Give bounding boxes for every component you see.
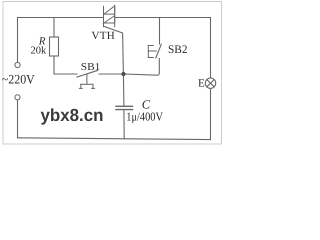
triac VTH triangle lower (pointing left) (104, 16, 115, 23)
svg-text:SB1: SB1 (81, 62, 101, 73)
switch SB1 blade (77, 71, 98, 78)
capacitor C plates (116, 106, 133, 109)
wire node corner up to SB2 (124, 59, 160, 76)
terminal upper (15, 62, 20, 67)
wire left rail lower (17, 100, 19, 138)
border frame (3, 2, 222, 145)
wire resistor top lead (53, 18, 55, 38)
terminal lower (15, 95, 20, 100)
wire SB1 to node (99, 73, 124, 75)
wire SB2 top lead (159, 18, 161, 45)
capacitor C bottom lead (123, 110, 125, 139)
svg-text:20k: 20k (31, 46, 48, 57)
triac VTH left bar (103, 6, 105, 27)
svg-text:SB2: SB2 (168, 44, 188, 56)
svg-text:ybx8.cn: ybx8.cn (41, 105, 104, 125)
lamp E symbol (205, 78, 215, 88)
capacitor C top lead (122, 74, 125, 106)
wire triac gate (104, 26, 124, 74)
svg-text:VTH: VTH (92, 30, 116, 42)
wire right rail lower (210, 88, 212, 139)
wire bottom rail (18, 138, 211, 140)
switch SB1 button cap (79, 74, 94, 88)
svg-text:E: E (198, 78, 205, 90)
wire resistor bottom lead to SB1 (54, 56, 77, 74)
wire top rail (18, 17, 211, 19)
svg-text:1μ/400V: 1μ/400V (126, 110, 163, 124)
node junction dot (121, 72, 125, 76)
triac VTH triangle upper (pointing left) (104, 6, 115, 14)
switch SB2 blade (156, 44, 162, 58)
wire right rail upper (210, 18, 212, 79)
resistor R body (50, 37, 59, 56)
switch SB2 button cap (148, 46, 156, 58)
wire left rail upper (17, 18, 19, 63)
triac VTH right bar (114, 5, 116, 27)
svg-text:~220V: ~220V (2, 71, 36, 86)
